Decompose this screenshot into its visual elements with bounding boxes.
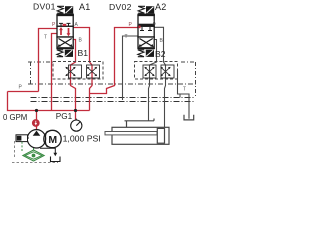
- valve DV01 crossed arrows box: [58, 39, 73, 48]
- valve DV01 bottom spring: [57, 50, 63, 57]
- motor M circle: [44, 130, 61, 147]
- suction green dashed line: [22, 142, 34, 152]
- wire: gray DV02 A line through B2 right to piston: [154, 27, 165, 128]
- svg-text:DV02: DV02: [109, 2, 132, 12]
- B2 right check valve: [160, 65, 174, 78]
- pressure gauge PG1: [71, 120, 82, 131]
- svg-text:B1: B1: [78, 48, 89, 58]
- valve DV01 thick top bar: [56, 14, 74, 16]
- machine boundary dash-dot left vertical: [30, 62, 32, 84]
- svg-text:PG1: PG1: [56, 112, 73, 121]
- wire: red DV01 P riser x38.5: [39, 29, 58, 92]
- valve DV02 red P stub mark: [138, 26, 140, 29]
- wire: red left loop horizontal y91.5: [8, 91, 39, 93]
- valve DV01 top spring: [57, 6, 64, 13]
- valve DV02 mid box blocked marks: [140, 27, 152, 31]
- pump left attachment box: [16, 135, 28, 142]
- svg-text:B2: B2: [155, 49, 166, 59]
- right mount: line from manifold: [178, 70, 190, 119]
- svg-text:T: T: [125, 34, 128, 40]
- valve DV01 top box blocked port marks: [59, 23, 71, 26]
- valve DV02 crossed arrows box: [139, 39, 154, 48]
- svg-text:DV01: DV01: [33, 2, 56, 12]
- pump outlet triangle: [33, 131, 41, 136]
- svg-text:M: M: [48, 134, 57, 146]
- cylinder mechanical drawing: bracket from B2 left line: [125, 119, 155, 128]
- cylinder rod: [105, 132, 157, 135]
- flow indicator red circle with arrow: [32, 119, 40, 127]
- machine boundary dash-dot top-left horizontal: [28, 61, 53, 63]
- valve DV01 bottom solenoid: [65, 50, 73, 57]
- pump circle: [27, 130, 45, 148]
- machine boundary dash-dot top-right horizontal: [181, 61, 196, 63]
- strainer green diamond: [23, 150, 44, 161]
- B2 dashed enclosure: [135, 62, 178, 80]
- machine boundary dash-dot mid horizontal y84: [28, 83, 196, 85]
- valve DV02 bottom bar: [137, 48, 155, 49]
- coupling arc: [45, 131, 47, 147]
- svg-text:T: T: [183, 87, 186, 93]
- svg-text:T: T: [44, 35, 47, 41]
- svg-text:0 GPM: 0 GPM: [3, 113, 27, 122]
- valve DV01 active box red flow arrows: [59, 27, 70, 36]
- right mount U bracket: [184, 115, 194, 120]
- gray dashed drain vertical: [14, 141, 16, 157]
- wire: red pump riser x36.5: [36, 111, 38, 131]
- wire: red DV01 A port down through B1 right: [73, 28, 92, 111]
- wire: gray DV02 T line: [123, 36, 139, 100]
- valve DV01 body: [57, 16, 73, 48]
- manifold dash-dot lower line: [31, 101, 196, 103]
- svg-text:1,000 PSI: 1,000 PSI: [63, 134, 101, 144]
- valve DV02 body: [138, 16, 154, 48]
- wire: red DV01 T line x51.5: [52, 34, 58, 111]
- machine boundary dash-dot right vertical: [195, 62, 197, 98]
- cylinder piston: [157, 128, 164, 143]
- wire: red pump pressure main line y110: [8, 92, 90, 111]
- junction dot gauge tee: [74, 109, 77, 112]
- svg-text:A1: A1: [79, 2, 91, 12]
- wire: red DV02 P supply: [90, 28, 139, 94]
- valve DV02 thick top bar: [137, 14, 155, 16]
- B1 left check valve: [65, 65, 81, 78]
- junction dot pump riser: [35, 109, 38, 112]
- B2 left check valve: [143, 65, 156, 78]
- right mount tick: [179, 94, 181, 98]
- valve DV02 top spring: [138, 6, 145, 13]
- tank symbol: [51, 157, 61, 162]
- wire: gray DV02 B line through B2 left: [149, 40, 157, 121]
- valve DV01 bottom bar: [56, 48, 74, 49]
- valve DV02 top solenoid: [146, 6, 154, 13]
- valve DV01 top box red port mark: [63, 24, 67, 26]
- valve DV02 bottom spring: [138, 50, 144, 57]
- valve DV01 top solenoid: [65, 6, 73, 13]
- B1 right check valve: [87, 65, 100, 78]
- gray dashed drain horizontal: [12, 162, 58, 164]
- valve DV02 bottom solenoid: [146, 50, 154, 57]
- wire: red DV01 B port down through B1 left to gauge: [71, 40, 76, 120]
- svg-text:A2: A2: [155, 2, 167, 12]
- valve DV02 top box dark spool bar: [139, 24, 154, 27]
- drain line to tank: [40, 148, 55, 154]
- cylinder body: [112, 127, 169, 144]
- B1 dashed enclosure: [53, 62, 103, 80]
- manifold dash-dot upper line: [31, 97, 196, 99]
